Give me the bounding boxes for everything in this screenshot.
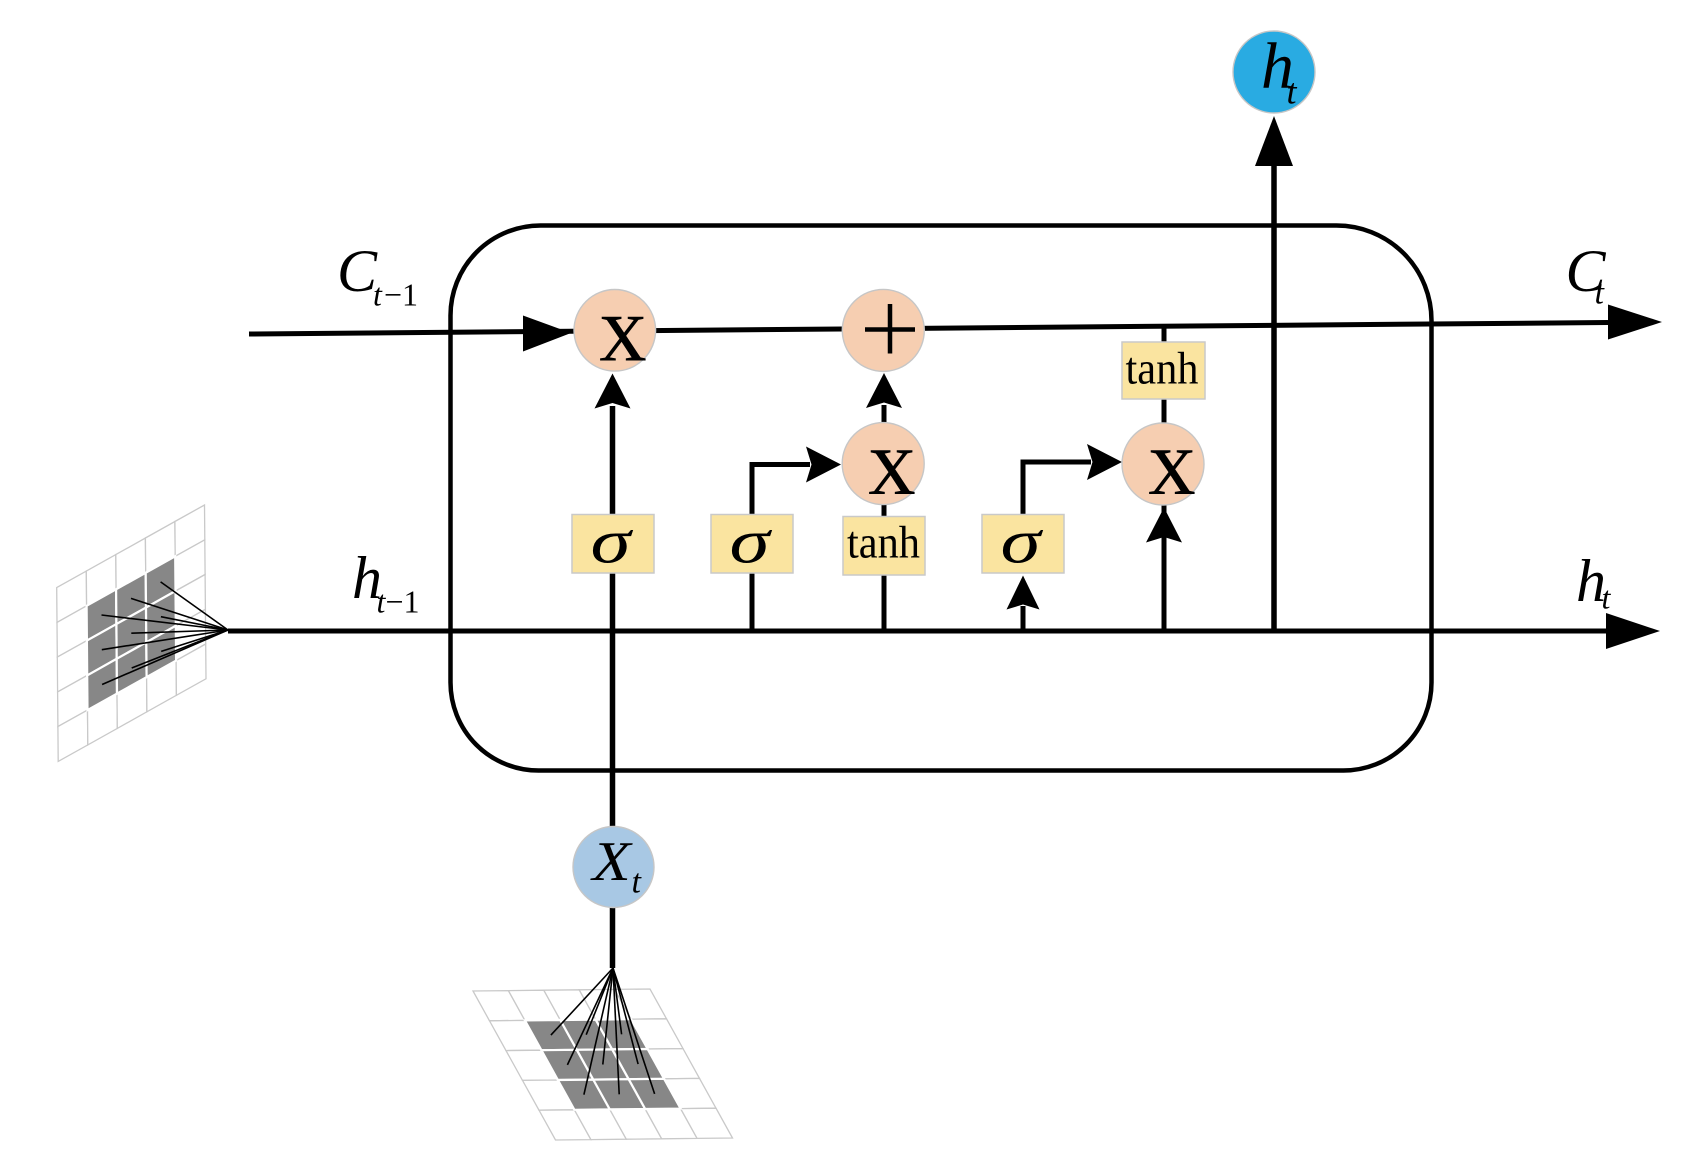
svg-text:t: t	[632, 864, 643, 901]
svg-text:x: x	[868, 409, 916, 515]
svg-text:−1: −1	[384, 277, 418, 313]
svg-text:σ: σ	[729, 506, 773, 576]
svg-text:t: t	[373, 277, 383, 313]
svg-text:X: X	[590, 830, 633, 892]
svg-text:x: x	[599, 276, 647, 382]
svg-text:tanh: tanh	[847, 517, 920, 568]
svg-text:x: x	[1148, 409, 1196, 515]
svg-text:C: C	[337, 238, 378, 304]
svg-text:t: t	[1595, 275, 1606, 312]
svg-text:t: t	[1287, 72, 1298, 112]
svg-text:σ: σ	[590, 506, 634, 576]
svg-text:t: t	[1602, 580, 1612, 616]
svg-text:−1: −1	[386, 584, 420, 620]
svg-text:tanh: tanh	[1126, 343, 1199, 394]
svg-text:σ: σ	[1000, 506, 1044, 576]
